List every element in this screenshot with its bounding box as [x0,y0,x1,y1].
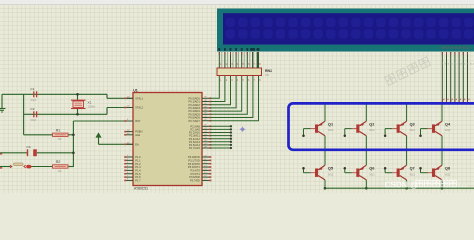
svg-text:9012: 9012 [369,173,375,176]
svg-text:Q2: Q2 [369,122,374,126]
svg-text:X1: X1 [88,100,92,104]
svg-text:C3: C3 [27,145,31,149]
svg-text:Q3: Q3 [410,122,415,126]
svg-text:P0.7/AD7: P0.7/AD7 [188,119,200,123]
svg-text:Q1: Q1 [328,122,333,126]
svg-text:R2: R2 [56,160,60,164]
svg-text:12MHz: 12MHz [88,106,97,109]
svg-text:9012: 9012 [328,173,334,176]
svg-text:AT89C51: AT89C51 [134,187,148,191]
svg-text:Q5: Q5 [328,167,333,171]
svg-text:Q6: Q6 [369,167,374,171]
svg-text:C2: C2 [31,107,35,111]
svg-text:P3.7/RD: P3.7/RD [190,179,200,183]
svg-text:R1: R1 [56,128,60,132]
svg-text:RN1: RN1 [265,69,272,73]
svg-text:Q8: Q8 [445,167,450,171]
svg-text:P1.7: P1.7 [135,179,141,183]
svg-text:C1: C1 [31,87,35,91]
svg-text:30pF: 30pF [31,98,37,102]
svg-text:9012: 9012 [445,173,451,176]
svg-text:EA: EA [135,142,139,146]
svg-text:U1: U1 [133,88,138,92]
svg-text:RST: RST [135,119,141,123]
svg-text:CSDN @: CSDN @ [385,181,418,190]
svg-text:P2.7/A15: P2.7/A15 [189,146,200,150]
svg-text:9012: 9012 [410,173,416,176]
svg-text:30pF: 30pF [31,118,37,122]
svg-text:XTAL1: XTAL1 [135,96,143,100]
svg-text:9012: 9012 [445,129,451,132]
svg-text:XTAL2: XTAL2 [135,106,143,110]
svg-text:9012: 9012 [369,129,375,132]
svg-text:9012: 9012 [328,129,334,132]
svg-text:Q4: Q4 [445,122,451,126]
svg-text:Q7: Q7 [410,167,415,171]
svg-text:ALE: ALE [135,133,140,137]
svg-text:9012: 9012 [410,129,416,132]
